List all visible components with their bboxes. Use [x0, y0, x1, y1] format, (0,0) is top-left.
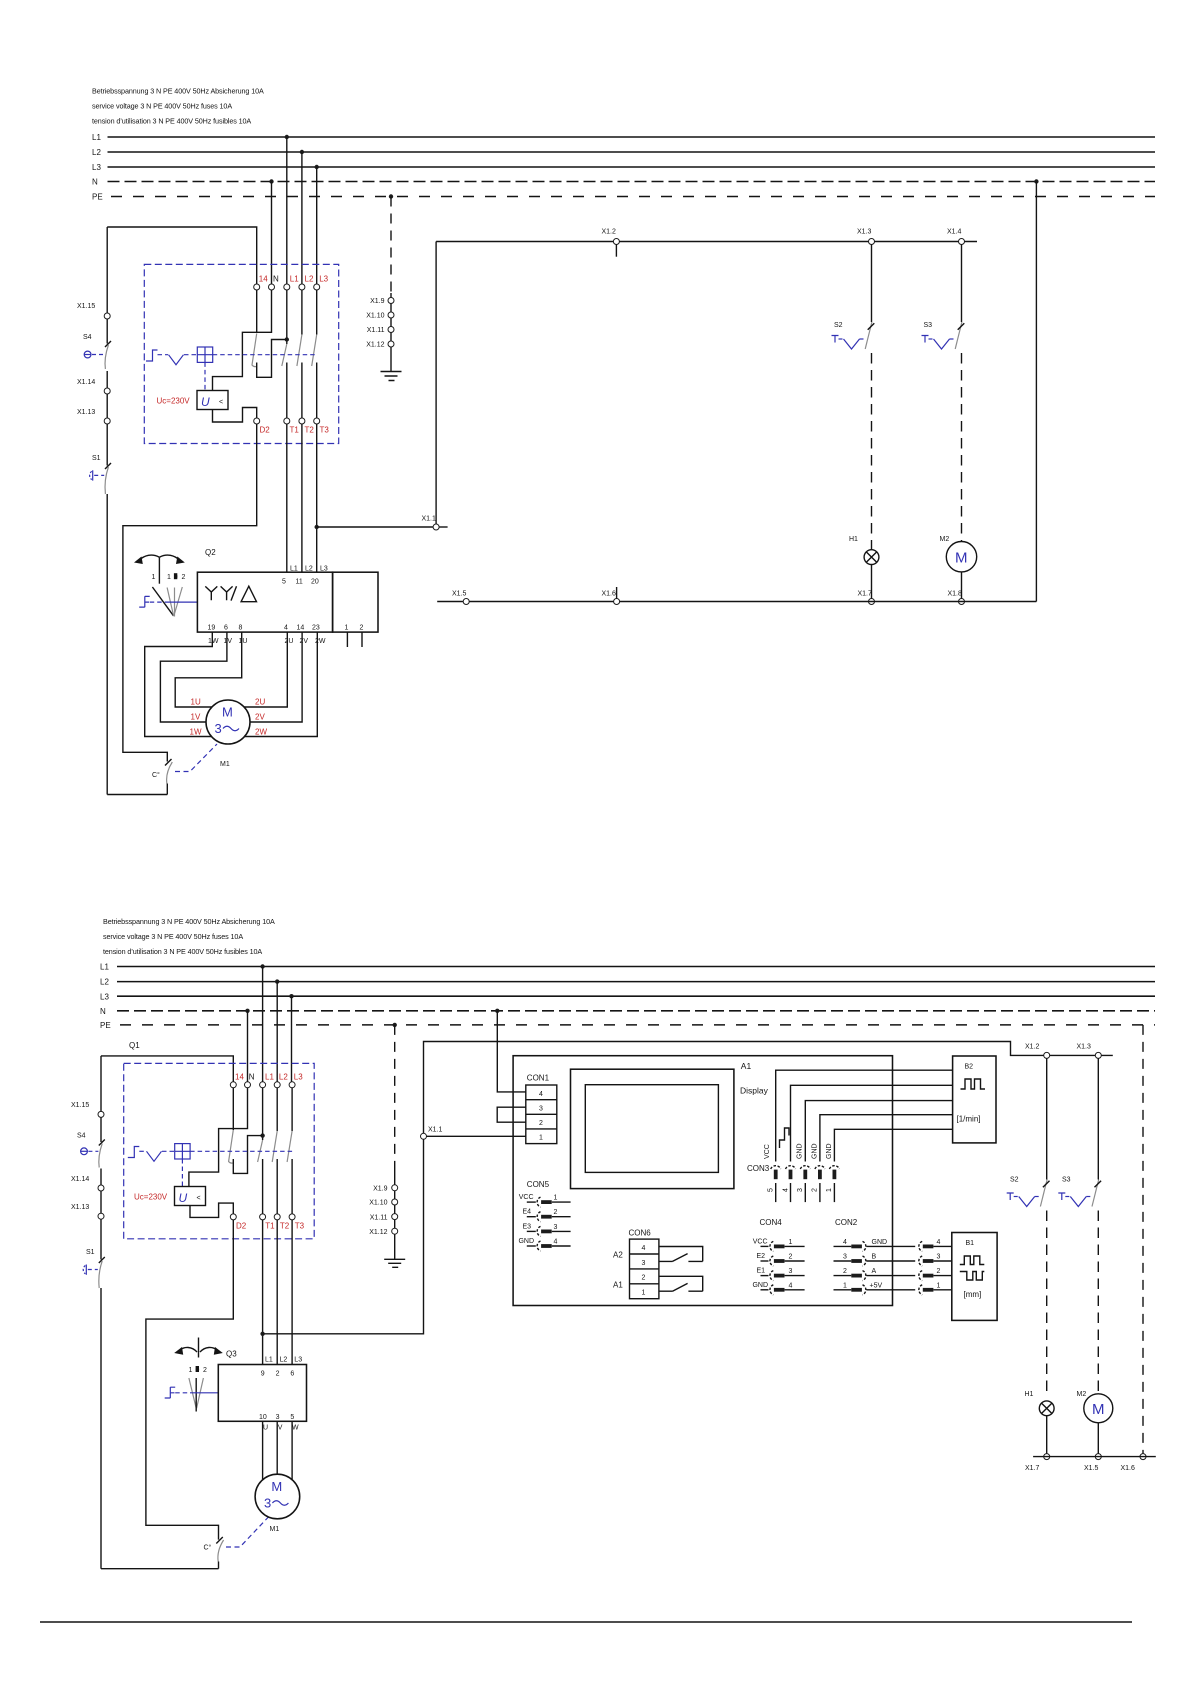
svg-text:3: 3 [554, 1224, 558, 1231]
svg-text:X1.7: X1.7 [1025, 1465, 1040, 1472]
wire X1.4 drop [961, 245, 963, 323]
svg-text:1: 1 [826, 1188, 833, 1192]
svg-text:S2: S2 [834, 322, 843, 329]
svg-text:1: 1 [152, 574, 156, 581]
dashed link C0 to motor b [226, 1517, 268, 1547]
terminal 14 [254, 284, 260, 290]
svg-text:L2: L2 [92, 148, 101, 157]
svg-text:X1.15: X1.15 [77, 303, 95, 310]
wire 2W [245, 632, 318, 736]
jumper CON1 pins 3-2 [497, 1107, 526, 1122]
contactor Q1 protection box blue dashed [124, 1063, 315, 1238]
wire V motor [276, 1421, 278, 1474]
svg-text:3: 3 [539, 1105, 543, 1112]
controller A1 box [513, 1056, 892, 1306]
svg-text:4: 4 [782, 1188, 789, 1192]
svg-text:X1.4: X1.4 [947, 229, 962, 236]
svg-text:X1.8: X1.8 [948, 591, 963, 598]
wire T3 drop to switch [316, 424, 318, 572]
svg-text:X1.13: X1.13 [77, 409, 95, 416]
svg-text:T3: T3 [295, 1222, 305, 1231]
svg-text:4: 4 [789, 1282, 793, 1289]
wire X1.2 drop b [1046, 1058, 1048, 1179]
contact blade L2 [297, 335, 302, 367]
display outer frame [571, 1069, 734, 1188]
wire H1 to X1.7 [871, 565, 873, 599]
motor M1 b [255, 1474, 300, 1519]
svg-text:X1.6: X1.6 [1121, 1465, 1136, 1472]
wire top distribution [436, 241, 977, 243]
wire 2V [250, 632, 302, 722]
svg-text:M1: M1 [220, 761, 230, 768]
svg-text:A1: A1 [613, 1280, 623, 1289]
svg-text:M: M [222, 705, 233, 720]
svg-text:X1.14: X1.14 [71, 1176, 89, 1183]
wire X1.1 link b [263, 1139, 424, 1334]
terminal X1.11 b [370, 1214, 398, 1222]
wire L2 pole top [301, 290, 303, 335]
wire 1W [145, 632, 213, 736]
crossed square b [175, 1144, 190, 1159]
terminal X1.14 [77, 379, 110, 394]
connector CON3 [747, 1164, 839, 1202]
wire T1 bottom b [262, 1159, 264, 1214]
svg-text:T2: T2 [280, 1222, 290, 1231]
wire N drop b [247, 1011, 249, 1082]
svg-text:X1.13: X1.13 [71, 1204, 89, 1211]
svg-text:3: 3 [843, 1254, 847, 1261]
svg-text:2: 2 [812, 1188, 819, 1192]
svg-text:X1.5: X1.5 [452, 591, 467, 598]
terminal T1 b [260, 1214, 266, 1220]
wire pole1 bottom to L1 b [233, 1136, 262, 1174]
motor M1 [206, 700, 250, 744]
svg-text:GND: GND [752, 1282, 768, 1289]
svg-text:2: 2 [539, 1120, 543, 1127]
svg-text:2: 2 [937, 1268, 941, 1275]
wire X1.1 riser to X1.2 [424, 1042, 1044, 1134]
svg-text:14: 14 [297, 625, 305, 632]
svg-text:E3: E3 [522, 1223, 531, 1230]
switch CON6 top [659, 1247, 703, 1262]
wire con3 pin3 to B2 [805, 1101, 952, 1162]
terminal X1.7 [858, 591, 875, 605]
svg-text:1U: 1U [191, 698, 201, 707]
wire X1.14 to X1.13 [106, 394, 108, 418]
wire L3 pole top [316, 290, 318, 335]
terminal X1.2 b [1025, 1044, 1050, 1059]
wire CON2 row1 to B1 [867, 1282, 952, 1295]
rail L1 [92, 133, 1155, 142]
wire T3 drop to Q3 [291, 1220, 293, 1365]
svg-text:2W: 2W [255, 728, 267, 737]
rail L2 b [100, 978, 1155, 987]
terminal X1.15 [77, 227, 110, 319]
terminal X1.2 [602, 229, 620, 257]
wire M2 to X1.8 [961, 572, 963, 599]
wire L2 pole top b [276, 1088, 278, 1131]
switch S2 b [1007, 1177, 1050, 1207]
svg-text:PE: PE [100, 1021, 111, 1030]
svg-text:U: U [201, 395, 210, 409]
rail PE [92, 193, 1155, 202]
wire bottom return [437, 601, 1036, 603]
display inner frame [585, 1085, 718, 1173]
rail L1 b [100, 963, 1155, 972]
wire M2 to X1.5 b [1097, 1423, 1099, 1454]
terminal N b [245, 1082, 251, 1088]
mechanism crossed square [197, 347, 212, 362]
aux stub 2 [361, 632, 363, 647]
svg-text:GND: GND [811, 1143, 818, 1159]
svg-text:S2: S2 [1010, 1177, 1019, 1184]
svg-text:S4: S4 [83, 334, 92, 341]
svg-text:L3: L3 [92, 163, 101, 172]
wire pole1 bottom to L1 [257, 340, 287, 378]
trip dashed line b [139, 1150, 146, 1152]
wire T1 drop to switch [286, 424, 288, 572]
contact blade L2 b [272, 1131, 277, 1162]
svg-text:M: M [1092, 1401, 1105, 1418]
svg-text:2U: 2U [255, 698, 265, 707]
svg-text:L1: L1 [92, 133, 101, 142]
wire T1 drop to Q3 [262, 1220, 264, 1365]
svg-text:2: 2 [843, 1268, 847, 1275]
wire S2 dashed drop [871, 353, 873, 550]
wire T3 bottom b [291, 1159, 293, 1214]
terminal D2 [254, 418, 260, 424]
terminal X1.11 [367, 327, 394, 335]
wire L1 drop b [262, 967, 264, 1082]
trip linkage step symbol [146, 350, 158, 361]
svg-text:S1: S1 [86, 1249, 95, 1256]
contact blade L1 [282, 344, 287, 366]
svg-text:M2: M2 [940, 536, 950, 543]
connector CON2 [834, 1218, 888, 1295]
svg-text:L3: L3 [294, 1357, 302, 1364]
svg-text:+5V: +5V [870, 1283, 883, 1290]
svg-text:19: 19 [208, 625, 216, 632]
svg-text:3: 3 [797, 1188, 804, 1192]
svg-text:2: 2 [642, 1275, 646, 1282]
svg-text:S4: S4 [77, 1133, 86, 1140]
wire con3 pin4 to B2 [791, 1085, 953, 1161]
node PE tap b [393, 1023, 397, 1027]
symbol YY/delta [205, 586, 256, 602]
contact blade pole1 b [229, 1130, 234, 1163]
terminal X1.6 b [1121, 1454, 1147, 1472]
contact blade L1 b [258, 1140, 263, 1162]
rail N [92, 178, 1155, 187]
wire L1 to contactor [286, 137, 288, 284]
trip linkage dashed to square [184, 354, 197, 356]
node L1 tap b [260, 964, 264, 968]
wire S2 dashed drop b [1046, 1211, 1048, 1394]
svg-text:4: 4 [539, 1091, 543, 1098]
trip dashed through poles [213, 354, 317, 356]
wire H1 to X1.7 b [1046, 1416, 1048, 1454]
terminal D2 b [230, 1214, 236, 1220]
terminal X1.3 [857, 229, 875, 245]
svg-text:GND: GND [518, 1238, 534, 1245]
wire CON2 row2 to B1 [867, 1268, 952, 1281]
svg-text:S3: S3 [924, 322, 933, 329]
svg-text:X1.6: X1.6 [602, 591, 617, 598]
svg-text:GND: GND [872, 1239, 888, 1246]
wire motor return bottom b [101, 1568, 219, 1570]
svg-text:4: 4 [843, 1239, 847, 1246]
wire U coil bottom to D2 [213, 408, 257, 423]
svg-text:X1.1: X1.1 [422, 516, 437, 523]
terminal T3 b [289, 1214, 295, 1220]
reversing switch Q3 box [218, 1365, 306, 1422]
motor M2 b [1077, 1391, 1113, 1423]
terminal T2 b [274, 1214, 280, 1220]
svg-text:Display: Display [740, 1086, 769, 1096]
node N tap b [245, 1009, 249, 1013]
svg-text:X1.1: X1.1 [428, 1127, 443, 1134]
switch S2 [832, 322, 875, 349]
switch CON6 bottom [659, 1276, 703, 1291]
wire N to contactor [271, 182, 273, 285]
wire pole1 top b [232, 1088, 234, 1130]
svg-text:X1.10: X1.10 [369, 1200, 387, 1207]
svg-text:X1.11: X1.11 [367, 327, 385, 334]
switch S1 [90, 424, 111, 795]
terminal X1.12 [366, 341, 394, 349]
svg-text:X1.2: X1.2 [602, 229, 617, 236]
svg-text:6: 6 [290, 1371, 294, 1378]
terminal L3 [314, 284, 320, 290]
wire pole1 top [256, 290, 258, 332]
terminal X1.13 [77, 409, 110, 424]
terminal X1.15 b [71, 1056, 104, 1118]
svg-text:5: 5 [768, 1188, 775, 1192]
svg-text:H1: H1 [1025, 1391, 1034, 1398]
terminal 14 b [230, 1082, 236, 1088]
svg-text:X1.5: X1.5 [1084, 1465, 1099, 1472]
selector dashed link b [175, 1392, 190, 1394]
wire T2 bottom [301, 363, 303, 419]
contact blade pole1 [252, 334, 257, 367]
node L3 tap [315, 165, 319, 169]
svg-text:M: M [955, 550, 968, 567]
selector position labels 1 1 0 2 [152, 573, 186, 581]
svg-text:D2: D2 [260, 426, 271, 435]
wire motor return bottom [107, 794, 167, 796]
terminal X1.9 [370, 298, 394, 306]
wire L3 pole top b [291, 1088, 293, 1131]
svg-text:Q1: Q1 [129, 1041, 140, 1050]
wire T3 bottom [316, 363, 318, 419]
wire con3 pin2 to B2 [820, 1115, 953, 1162]
pulse glyph con3 pin4 [780, 1128, 790, 1148]
svg-text:S3: S3 [1062, 1177, 1071, 1184]
wire PE solid to ground [390, 293, 392, 371]
svg-text:T1: T1 [290, 426, 300, 435]
svg-text:X1.2: X1.2 [1025, 1044, 1040, 1051]
terminal L1 b [260, 1082, 266, 1088]
switch S4 [83, 319, 111, 388]
wire W motor [291, 1421, 293, 1480]
svg-text:2: 2 [276, 1371, 280, 1378]
wire CON2 row4 to B1 [867, 1239, 952, 1252]
svg-text:CON4: CON4 [760, 1218, 783, 1227]
node N tap [269, 179, 273, 183]
trip dashed to square b [162, 1150, 174, 1152]
svg-text:2: 2 [182, 574, 186, 581]
wire D2 control loop b [146, 1220, 233, 1540]
wire PE solid b [394, 1166, 396, 1259]
wire L2 drop b [276, 982, 278, 1082]
svg-text:1V: 1V [191, 713, 201, 722]
rail L3 b [100, 993, 1155, 1002]
svg-text:3: 3 [789, 1268, 793, 1275]
svg-text:T1: T1 [265, 1222, 275, 1231]
svg-text:N: N [92, 178, 98, 187]
wire T2 drop to Q3 [276, 1220, 278, 1365]
svg-text:D2: D2 [236, 1222, 247, 1231]
dashed link to U coil [204, 362, 206, 390]
svg-text:GND: GND [826, 1143, 833, 1159]
wire X1.3 drop [871, 245, 873, 323]
svg-text:E4: E4 [522, 1209, 531, 1216]
svg-text:6: 6 [224, 625, 228, 632]
node L1-aux junction [285, 337, 289, 341]
svg-text:X1.12: X1.12 [369, 1229, 387, 1236]
wire N feed right vertical [1035, 182, 1037, 602]
terminal L3 b [289, 1082, 295, 1088]
svg-text:N: N [100, 1007, 106, 1016]
trip V symbol b [147, 1151, 162, 1161]
svg-text:T3: T3 [320, 426, 330, 435]
switch S4 b [77, 1117, 105, 1185]
svg-text:1: 1 [189, 1367, 193, 1374]
svg-text:A: A [872, 1268, 877, 1275]
svg-text:service voltage 3 N PE 400V 50: service voltage 3 N PE 400V 50Hz fuses 1… [103, 932, 243, 941]
svg-text:L3: L3 [320, 566, 328, 573]
svg-text:2: 2 [203, 1367, 207, 1374]
svg-text:L1: L1 [265, 1072, 274, 1081]
svg-text:1: 1 [345, 625, 349, 632]
wire D2 control loop [123, 424, 257, 762]
selector fan [152, 587, 182, 617]
encoder B1 [952, 1233, 997, 1321]
wire X1.1 riser [435, 242, 437, 525]
connector CON5 [518, 1180, 570, 1251]
svg-text:service voltage 3 N PE 400V 50: service voltage 3 N PE 400V 50Hz fuses 1… [92, 102, 232, 111]
wire X1.1 to CON1 pin1 [427, 1135, 526, 1137]
svg-text:L2: L2 [305, 275, 314, 284]
svg-text:8: 8 [239, 625, 243, 632]
wire bottom return b [1033, 1456, 1156, 1458]
svg-text:X1.15: X1.15 [71, 1102, 89, 1109]
wire con3 pin5 to B2 [776, 1070, 953, 1161]
svg-text:N: N [273, 275, 279, 284]
svg-text:L1: L1 [290, 275, 299, 284]
svg-text:3: 3 [276, 1414, 280, 1421]
node N tap CON1 [495, 1009, 499, 1013]
terminal X1.7 b [1025, 1454, 1050, 1472]
selector position labels 1 0 2 b [189, 1366, 208, 1374]
svg-text:1W: 1W [190, 728, 202, 737]
ground symbol [381, 372, 402, 381]
svg-text:X1.12: X1.12 [366, 342, 384, 349]
svg-text:GND: GND [797, 1143, 804, 1159]
wire T2 drop to switch [301, 424, 303, 572]
svg-text:CON6: CON6 [629, 1228, 652, 1237]
svg-text:1: 1 [789, 1239, 793, 1246]
svg-text:1V: 1V [224, 638, 233, 645]
lamp H1 b [1025, 1391, 1055, 1416]
terminal X1.13 b [71, 1204, 104, 1219]
svg-text:9: 9 [261, 1371, 265, 1378]
wire X1.14-X1.13 b [100, 1191, 102, 1213]
selector solid link b [190, 1392, 218, 1394]
svg-text:14: 14 [259, 275, 268, 284]
svg-text:1: 1 [937, 1282, 941, 1289]
svg-text:B: B [872, 1254, 877, 1261]
terminal T1 [284, 418, 290, 424]
svg-text:M: M [271, 1479, 282, 1494]
terminal X1.5 [452, 591, 469, 605]
svg-text:<: < [197, 1195, 201, 1202]
svg-text:X1.14: X1.14 [77, 379, 95, 386]
terminal N [269, 284, 275, 290]
wire PE drop right dashed [1142, 1025, 1144, 1454]
terminal X1.3 b [1077, 1044, 1102, 1059]
wire N jog b [189, 1088, 248, 1187]
svg-text:X1.9: X1.9 [370, 298, 385, 305]
svg-text:E2: E2 [756, 1253, 765, 1260]
svg-text:N: N [249, 1072, 255, 1081]
svg-text:VCC: VCC [764, 1144, 771, 1159]
terminal X1.5 b [1084, 1454, 1101, 1472]
thermal contact C0 b [204, 1537, 224, 1569]
undervoltage release U< b [175, 1187, 206, 1206]
svg-text:3: 3 [264, 1496, 271, 1511]
svg-text:M2: M2 [1077, 1391, 1087, 1398]
terminal T3 [314, 418, 320, 424]
terminal X1.14 b [71, 1176, 104, 1191]
undervoltage release U< [197, 391, 228, 410]
svg-text:X1.7: X1.7 [858, 591, 873, 598]
contact blade L3 [312, 335, 317, 367]
svg-text:C°: C° [204, 1544, 212, 1552]
selector solid link to box [169, 601, 197, 603]
terminal X1.1 [422, 516, 448, 531]
wire 1V [160, 632, 227, 722]
svg-text:Uc=230V: Uc=230V [157, 397, 191, 406]
terminal L1 [284, 284, 290, 290]
svg-text:L2: L2 [305, 566, 313, 573]
page border line [40, 1621, 1132, 1623]
svg-text:23: 23 [312, 625, 320, 632]
svg-text:2U: 2U [285, 638, 294, 645]
svg-text:Betriebsspannung 3 N PE 400V 5: Betriebsspannung 3 N PE 400V 50Hz Absich… [92, 87, 264, 96]
svg-text:[1/min]: [1/min] [957, 1115, 981, 1124]
wire CON2 row3 to B1 [867, 1254, 952, 1267]
trip dashed through poles b [190, 1150, 292, 1152]
selector fan b [189, 1378, 204, 1412]
node L1 tap [285, 135, 289, 139]
contactor Q2 protection box (blue dashed) [144, 264, 338, 443]
trip linkage dashed line [158, 354, 169, 356]
selector step symbol b [165, 1387, 176, 1398]
terminal X1.8 [948, 591, 965, 605]
svg-text:10: 10 [259, 1414, 267, 1421]
wire X1.2 to X1.3 [1050, 1054, 1113, 1056]
